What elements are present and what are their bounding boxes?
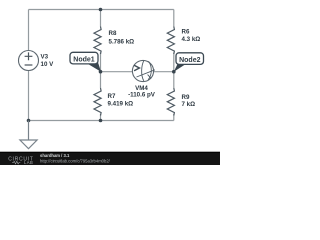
wire right branch lower	[173, 114, 175, 121]
ground	[20, 121, 37, 149]
resistor R7	[94, 88, 101, 115]
wire right branch mid	[173, 53, 175, 89]
svg-text:shardham / 3.1: shardham / 3.1	[40, 153, 70, 158]
node Node2 flag	[174, 63, 187, 72]
svg-text:Node1: Node1	[73, 56, 95, 63]
node Node2 junction	[172, 70, 176, 74]
wire right branch upper	[173, 10, 175, 27]
voltmeter VM4	[132, 60, 153, 81]
wire top horizontal	[29, 9, 174, 11]
svg-text:LAB: LAB	[24, 160, 33, 165]
svg-text:-110.6 pV: -110.6 pV	[128, 91, 156, 98]
wire meter left	[101, 71, 133, 73]
wire left vertical lower	[28, 71, 30, 121]
svg-text:R7: R7	[108, 93, 116, 100]
svg-text:http://circuitlab.com/c/795a3r: http://circuitlab.com/c/795a3rb4m0b2/	[40, 158, 111, 163]
wire left vertical upper	[28, 10, 30, 51]
node C junction bottom middle	[99, 119, 103, 123]
wire middle branch upper	[100, 10, 102, 27]
resistor R9	[167, 88, 174, 115]
resistor R8	[94, 27, 101, 54]
node B junction bottom left	[27, 119, 31, 123]
svg-text:Node2: Node2	[179, 57, 201, 64]
svg-text:R8: R8	[109, 30, 117, 37]
footer bar	[0, 152, 220, 165]
svg-text:10 V: 10 V	[41, 61, 55, 68]
node A junction top	[99, 8, 103, 12]
wire bottom horizontal	[29, 120, 174, 122]
node Node1 junction	[99, 70, 103, 74]
wire middle branch mid	[100, 53, 102, 89]
svg-text:4.3 kΩ: 4.3 kΩ	[182, 36, 201, 43]
svg-text:5.786 kΩ: 5.786 kΩ	[109, 38, 135, 45]
voltage source V3	[19, 51, 39, 71]
svg-text:V3: V3	[41, 54, 49, 61]
svg-text:R6: R6	[182, 29, 190, 36]
wire middle branch lower	[100, 114, 102, 121]
node Node1 flag	[87, 62, 101, 72]
wire meter right	[154, 71, 174, 73]
resistor R6	[167, 27, 174, 54]
svg-text:9.419 kΩ: 9.419 kΩ	[108, 101, 134, 108]
svg-text:7 kΩ: 7 kΩ	[182, 101, 196, 108]
